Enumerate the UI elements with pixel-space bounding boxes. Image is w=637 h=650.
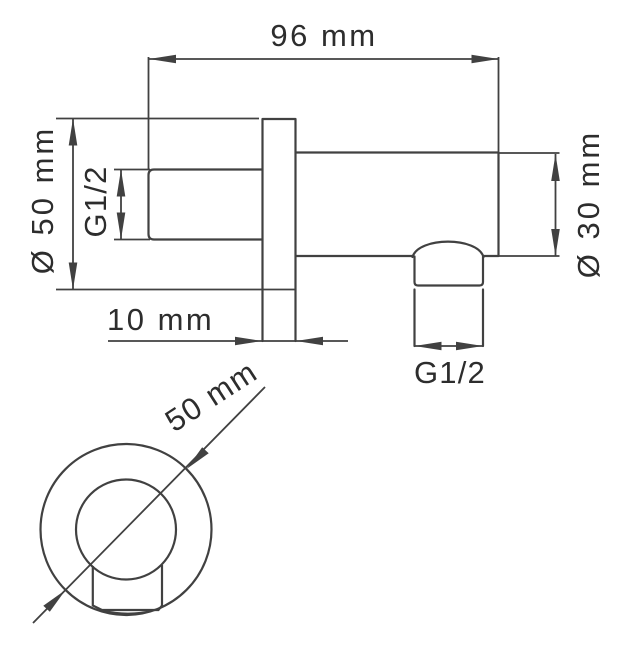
arrowhead G1/2 left bottom xyxy=(117,213,126,240)
wall spud rounded rectangle xyxy=(149,170,263,240)
dimension 96 mm: line xyxy=(149,58,499,60)
svg-text:G1/2: G1/2 xyxy=(78,165,113,237)
arrowhead dia30 top xyxy=(551,154,560,181)
dimension diameter 30: extension lines xyxy=(487,153,560,256)
flange plate outline xyxy=(263,119,296,341)
arrowhead 96mm right xyxy=(472,55,499,64)
dimension G1/2 left: line xyxy=(120,170,122,239)
dimension 96 mm: right extension line xyxy=(498,57,500,152)
dimension G1/2 left: extension lines xyxy=(114,170,150,240)
arrowhead 96mm left xyxy=(149,55,176,64)
dimension diameter 30: line xyxy=(555,154,557,256)
arrowhead 10mm left (points right at flange) xyxy=(235,337,262,346)
bottom view spout mouth arc xyxy=(103,611,153,614)
svg-text:Ø 30 mm: Ø 30 mm xyxy=(571,130,606,278)
arrowhead G1/2 bottom left xyxy=(415,342,442,351)
arrowhead 10mm right (points left at flange) xyxy=(296,337,323,346)
dimension G1/2 bottom: line xyxy=(415,345,484,347)
outlet dome xyxy=(413,242,484,257)
svg-text:G1/2: G1/2 xyxy=(414,355,486,390)
svg-text:50 mm: 50 mm xyxy=(159,354,264,439)
svg-text:Ø 50 mm: Ø 50 mm xyxy=(25,126,60,274)
outlet nipple G1/2 xyxy=(415,290,484,347)
dimension 96 mm: left extension line xyxy=(148,57,150,169)
arrowhead 50mm NE (points SW at circle) xyxy=(187,447,209,469)
dimension diameter 50: line xyxy=(72,119,74,290)
bottom view inner circle (body) xyxy=(76,480,176,580)
arrowhead dia50 bottom xyxy=(69,263,78,290)
pipe body xyxy=(296,153,499,257)
svg-text:10 mm: 10 mm xyxy=(107,302,214,337)
arrowhead G1/2 left top xyxy=(117,170,126,197)
dimension 10 mm: line xyxy=(108,340,348,342)
arrowhead G1/2 bottom right xyxy=(456,342,483,351)
outlet collar xyxy=(415,257,484,286)
arrowhead 50mm SW (points NE at circle) xyxy=(43,590,65,612)
dimension 50 mm diagonal: line xyxy=(33,387,265,623)
dimension diameter 50: extension lines xyxy=(56,119,296,290)
svg-text:96 mm: 96 mm xyxy=(270,18,377,53)
arrowhead dia30 bottom xyxy=(551,229,560,256)
bottom view nut outline xyxy=(93,565,162,610)
bottom view outer circle (flange) xyxy=(41,444,212,615)
arrowhead dia50 top xyxy=(69,119,78,146)
